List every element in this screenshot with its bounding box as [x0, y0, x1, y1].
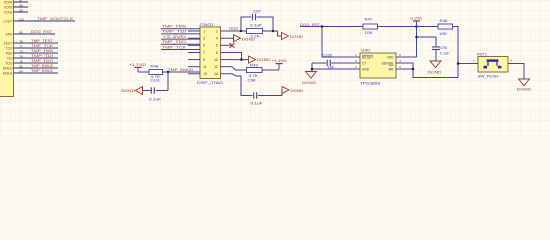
svg-text:GND: GND — [362, 68, 370, 72]
wire CT run — [312, 62, 326, 64]
wire JTAG pin4 to DGND — [232, 37, 234, 39]
svg-text:DGND: DGND — [302, 81, 317, 85]
svg-text:0.1uF: 0.1uF — [149, 98, 161, 102]
JTAG1 left pin stub — [188, 66, 200, 68]
DSP chip U1 (partially cut off at left edge) — [0, 0, 14, 97]
svg-text:RESET: RESET — [362, 56, 373, 60]
ground DGND arrow (row 14) — [282, 87, 289, 94]
JTAG1 left pin stub — [188, 30, 200, 32]
pin LOUT (138) of DSP chip — [14, 20, 76, 22]
svg-text:JTAG1: JTAG1 — [199, 23, 214, 27]
wire C95 to DGND — [435, 50, 437, 61]
svg-text:TMP_TDO: TMP_TDO — [31, 59, 53, 63]
pin EMU0 (82) of DSP chip — [14, 67, 59, 69]
svg-text:TMP_TDI: TMP_TDI — [162, 30, 186, 34]
svg-text:+1.2VD: +1.2VD — [409, 16, 423, 20]
svg-text:TMP_EMU0: TMP_EMU0 — [168, 68, 193, 72]
svg-text:4: 4 — [216, 37, 218, 41]
U30 pin CT — [352, 62, 360, 64]
svg-text:DSP_JTAG: DSP_JTAG — [197, 81, 223, 85]
pin XD03 (88) of DSP chip — [14, 6, 29, 8]
svg-text:TMP_TDO: TMP_TDO — [162, 40, 186, 44]
resistor R45 2.2K — [247, 29, 263, 34]
svg-text:76: 76 — [19, 54, 23, 58]
svg-text:TMP_EMU1: TMP_EMU1 — [31, 69, 53, 73]
wire R46 down to sense/button node — [453, 27, 459, 78]
wire JTAG pin10 — [232, 59, 249, 61]
wire RST1 to DGND — [514, 64, 524, 80]
svg-text:R47: R47 — [365, 18, 373, 22]
JTAG1 left pin stub — [188, 59, 200, 61]
svg-text:XD02: XD02 — [4, 11, 13, 15]
pin XRS (80) of DSP chip — [14, 33, 56, 35]
svg-text:DGND: DGND — [257, 58, 270, 62]
svg-text:XRS: XRS — [5, 33, 13, 37]
svg-text:7: 7 — [203, 51, 205, 55]
ground DGND (below C95) — [430, 61, 441, 68]
svg-text:2: 2 — [216, 29, 218, 33]
power port +1.2VD — [415, 25, 417, 27]
wire into JTAG1 left pin row 4 — [161, 43, 200, 45]
svg-text:TMP_TMS: TMP_TMS — [162, 25, 187, 29]
capacitor C95 0.1uF — [432, 46, 440, 48]
svg-text:DGND: DGND — [291, 89, 304, 93]
capacitor C98 0.1uF — [253, 92, 255, 98]
wire GND run — [312, 68, 352, 70]
pin TDI (76) of DSP chip — [14, 57, 59, 59]
wire into JTAG1 left pin row 5 — [161, 49, 200, 51]
wire JTAG pin8 down — [232, 53, 242, 60]
wire R47 to R46 — [378, 26, 439, 28]
JTAG1 left pin stub — [188, 73, 200, 75]
svg-text:U30: U30 — [361, 48, 370, 52]
svg-text:XD03: XD03 — [4, 6, 13, 10]
wire JTAG pin14 down to C98 — [232, 74, 253, 96]
svg-text:DGND: DGND — [121, 88, 135, 93]
wire C98 to DGND — [258, 90, 282, 96]
svg-text:SW_PUSH: SW_PUSH — [478, 75, 499, 79]
svg-text:+1.1VD: +1.1VD — [129, 63, 147, 67]
ground DGND (left arrow) — [136, 87, 143, 95]
pin EMU1 (84) of DSP chip — [14, 72, 59, 74]
junction node at R48 output — [167, 71, 169, 73]
wire JTAG pin12 to R49 — [232, 67, 247, 70]
svg-text:75: 75 — [19, 59, 23, 63]
svg-text:TPS3808: TPS3808 — [360, 81, 380, 85]
svg-text:C101: C101 — [151, 78, 161, 82]
wire down to DGND — [311, 63, 313, 72]
svg-text:EMU1: EMU1 — [3, 72, 13, 76]
svg-text:10K: 10K — [365, 31, 374, 35]
svg-text:11: 11 — [203, 65, 207, 69]
supervisor U30 TPS3808 — [360, 53, 396, 78]
wire resistor to node — [263, 30, 278, 32]
wire +1.2VD down to VDD — [404, 27, 417, 58]
svg-text:+1.1VD: +1.1VD — [272, 59, 287, 63]
pin TCK (77) of DSP chip — [14, 47, 59, 49]
svg-text:SENSE: SENSE — [382, 62, 394, 66]
svg-text:R48: R48 — [151, 64, 159, 68]
svg-text:DGND: DGND — [242, 37, 255, 41]
svg-text:TMP_TEST: TMP_TEST — [31, 39, 54, 43]
svg-text:80: 80 — [19, 30, 23, 34]
svg-text:C95: C95 — [440, 46, 447, 50]
svg-text:3: 3 — [203, 37, 205, 41]
svg-text:10K: 10K — [439, 32, 448, 36]
svg-text:TCK: TCK — [6, 47, 14, 51]
power port +1.1VD (right of R49) — [276, 63, 283, 65]
wire DOG_RST to R47 — [300, 26, 363, 28]
wire junction down to C101 — [167, 72, 169, 91]
svg-text:TRST: TRST — [228, 27, 239, 31]
pin TDO (75) of DSP chip — [14, 62, 59, 64]
svg-text:TMP_TCK: TMP_TCK — [162, 45, 187, 49]
ground DGND arrow (row 4) — [234, 35, 241, 42]
wire JTAG pin2 to RC — [232, 30, 247, 32]
svg-text:RST1: RST1 — [477, 52, 487, 56]
svg-text:TMP_XOUTCLK: TMP_XOUTCLK — [37, 17, 74, 21]
svg-text:0.1uF: 0.1uF — [251, 102, 263, 106]
no-connect X on JTAG pin 6 — [230, 43, 235, 48]
wire node to push button — [458, 63, 472, 65]
U30 pin VDD — [396, 56, 404, 58]
svg-text:R46: R46 — [440, 19, 448, 23]
JTAG1 left pin stub — [188, 44, 200, 46]
capacitor C101 0.1uF — [150, 87, 152, 93]
wire C101 to DGND — [143, 90, 152, 92]
wire R48 to JTAG pin 13 (TMP_EMU0) — [163, 71, 201, 73]
svg-text:138: 138 — [18, 17, 23, 21]
svg-text:5: 5 — [203, 44, 205, 48]
RST1 pin 1 — [472, 63, 479, 65]
svg-text:1: 1 — [203, 29, 205, 33]
wire to DGND arrow — [278, 31, 282, 36]
svg-text:TDO: TDO — [5, 62, 13, 66]
resistor R49 4.7K — [247, 68, 263, 73]
svg-text:89: 89 — [19, 8, 23, 12]
svg-text:TMP_TDI: TMP_TDI — [31, 54, 53, 58]
svg-text:+3.3VD: +3.3VD — [162, 35, 187, 39]
svg-text:82: 82 — [19, 64, 23, 68]
svg-text:TMP_TCK: TMP_TCK — [31, 44, 54, 48]
wire SENSE/MR loop — [404, 63, 458, 78]
ground DGND (right of RST1) — [519, 79, 530, 86]
svg-text:8: 8 — [216, 51, 218, 55]
wire into JTAG1 left pin row 3 — [161, 38, 200, 40]
ground DGND arrow (rows 8/10) — [249, 56, 256, 63]
JTAG1 connector body — [200, 27, 221, 79]
push button RST1 SW_PUSH — [478, 57, 508, 73]
wire into JTAG1 left pin row 1 — [161, 28, 200, 30]
svg-text:13: 13 — [203, 72, 207, 76]
svg-text:DOG_RST: DOG_RST — [31, 30, 53, 34]
U30 pin SENSE — [396, 62, 404, 64]
svg-text:0.1uF: 0.1uF — [440, 51, 449, 55]
resistor R46 10K — [438, 24, 453, 29]
svg-text:87: 87 — [19, 0, 23, 2]
svg-text:TMS: TMS — [5, 52, 13, 56]
wire branch to C95 — [417, 37, 437, 46]
pin XD02 (89) of DSP chip — [14, 11, 29, 13]
wire into JTAG1 left pin row 2 — [161, 33, 200, 35]
svg-text:DGND: DGND — [517, 87, 532, 91]
U30 pin GND — [352, 68, 360, 70]
svg-text:78: 78 — [19, 39, 23, 43]
svg-text:10: 10 — [214, 58, 218, 62]
svg-text:LOUT: LOUT — [3, 20, 13, 24]
svg-text:TEST: TEST — [4, 42, 14, 46]
JTAG1 left pin stub — [188, 52, 200, 54]
RST1 pin 2 — [508, 63, 514, 65]
wire +1.1VD to R48 — [138, 71, 149, 73]
svg-text:84: 84 — [19, 69, 23, 73]
pin XD04 (87) of DSP chip — [14, 1, 29, 3]
svg-text:R49: R49 — [250, 63, 258, 67]
resistor R48 4.7K — [149, 70, 163, 75]
svg-text:MR: MR — [389, 68, 395, 72]
svg-text:DGND: DGND — [428, 70, 443, 74]
resistor R47 10K — [363, 24, 378, 29]
wire R49 to +1.1VD — [262, 69, 279, 71]
svg-text:TMP_TMS: TMP_TMS — [31, 49, 54, 53]
JTAG1 left pin stub — [188, 37, 200, 39]
svg-text:14: 14 — [214, 72, 218, 76]
U30 pin MR — [396, 68, 404, 70]
svg-text:TDI: TDI — [7, 57, 13, 61]
svg-text:C97: C97 — [253, 10, 261, 14]
svg-text:CT: CT — [362, 62, 366, 66]
svg-text:TMP_EMU0: TMP_EMU0 — [31, 64, 53, 68]
U30 pin RESET — [352, 56, 360, 58]
pin TMS (74) of DSP chip — [14, 52, 59, 54]
svg-text:C100: C100 — [323, 53, 333, 57]
svg-text:0.1uF: 0.1uF — [250, 24, 262, 28]
svg-text:XD04: XD04 — [4, 1, 13, 5]
svg-text:DGND: DGND — [290, 35, 303, 39]
svg-text:77: 77 — [19, 44, 23, 48]
pin TEST (78) of DSP chip — [14, 42, 59, 44]
svg-text:88: 88 — [19, 3, 23, 7]
svg-text:12: 12 — [214, 65, 218, 69]
svg-text:9: 9 — [203, 58, 205, 62]
svg-text:VDD: VDD — [387, 56, 394, 60]
svg-text:4.7K: 4.7K — [249, 74, 259, 78]
capacitor C100 (series on CT) — [326, 60, 328, 66]
svg-text:C98: C98 — [248, 79, 256, 83]
svg-text:74: 74 — [19, 49, 23, 53]
wire down to RESET pin — [322, 27, 352, 58]
capacitor C97 0.1uF (parallel) — [241, 17, 251, 31]
svg-text:6: 6 — [216, 44, 218, 48]
ground DGND arrow (row 2) — [282, 33, 289, 40]
svg-text:EMU0: EMU0 — [3, 67, 13, 71]
ground DGND (below U30 left) — [306, 72, 317, 79]
